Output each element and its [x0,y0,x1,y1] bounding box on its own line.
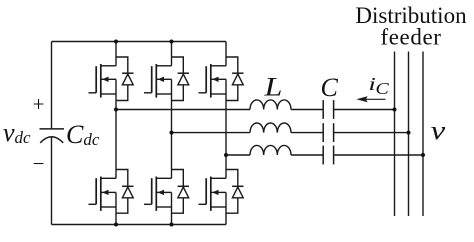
capacitor Ca [323,100,333,119]
wire phase B to inductor [172,132,251,134]
feeder line 3 [422,52,424,217]
wire phase B cap to feeder [334,132,409,134]
transistor Q6 lower leg C [199,170,244,225]
wire bottom dc rail [52,224,227,226]
node dot phase B tap [170,131,174,135]
node dot phase A tap [114,108,118,112]
transistor Q4 lower leg B [144,170,189,225]
transistor Q5 upper leg C [199,42,244,101]
wire phase A cap to feeder [334,109,395,111]
capacitor Cdc curved plate [40,137,63,143]
wire top dc rail [52,41,227,43]
transistor Q3 upper leg B [144,42,189,101]
svg-text:vdc: vdc [3,118,31,147]
arrow shaft [360,98,386,100]
inductor Lc [250,145,291,155]
node dot bottom rail leg B [170,223,174,227]
capacitor Cdc top plate [40,128,65,130]
wire phase C to inductor [226,154,250,156]
svg-text:+: + [33,92,45,116]
svg-text:C: C [375,80,389,98]
transistor Q1 upper leg A [89,42,134,101]
node dot top rail leg A [114,40,118,44]
wire leg B mid [171,101,173,179]
svg-text:feeder: feeder [380,24,441,49]
wire phase A inductor to cap [291,109,323,111]
wire phase C inductor to cap [291,154,323,156]
wire leg C mid [225,101,227,179]
wire phase B inductor to cap [291,132,323,134]
wire phase C cap to feeder [334,154,423,156]
wire phase A to inductor [116,109,250,111]
node dot phase C tap [224,153,228,157]
svg-text:C: C [321,73,339,102]
inductor La [250,100,291,110]
svg-text:Cdc: Cdc [66,120,100,149]
feeder line 1 [394,52,396,217]
svg-text:v: v [431,117,446,145]
capacitor Cc [323,146,333,165]
node dot feeder phase B [407,131,411,135]
node dot top rail leg B [170,40,174,44]
node dot feeder phase C [421,153,425,157]
wire left rail lower [51,137,53,225]
inductor Lb [250,123,291,133]
arrow head [356,96,367,102]
svg-text:L: L [263,73,282,101]
capacitor Cb [323,123,333,142]
feeder line 2 [408,52,410,217]
wire left rail upper [51,42,53,129]
svg-text:−: − [33,152,45,176]
wire leg A mid [115,101,117,179]
current arrow iC [356,96,385,102]
node dot bottom rail leg A [114,223,118,227]
node dot feeder phase A [393,108,397,112]
transistor Q2 lower leg A [89,170,134,225]
